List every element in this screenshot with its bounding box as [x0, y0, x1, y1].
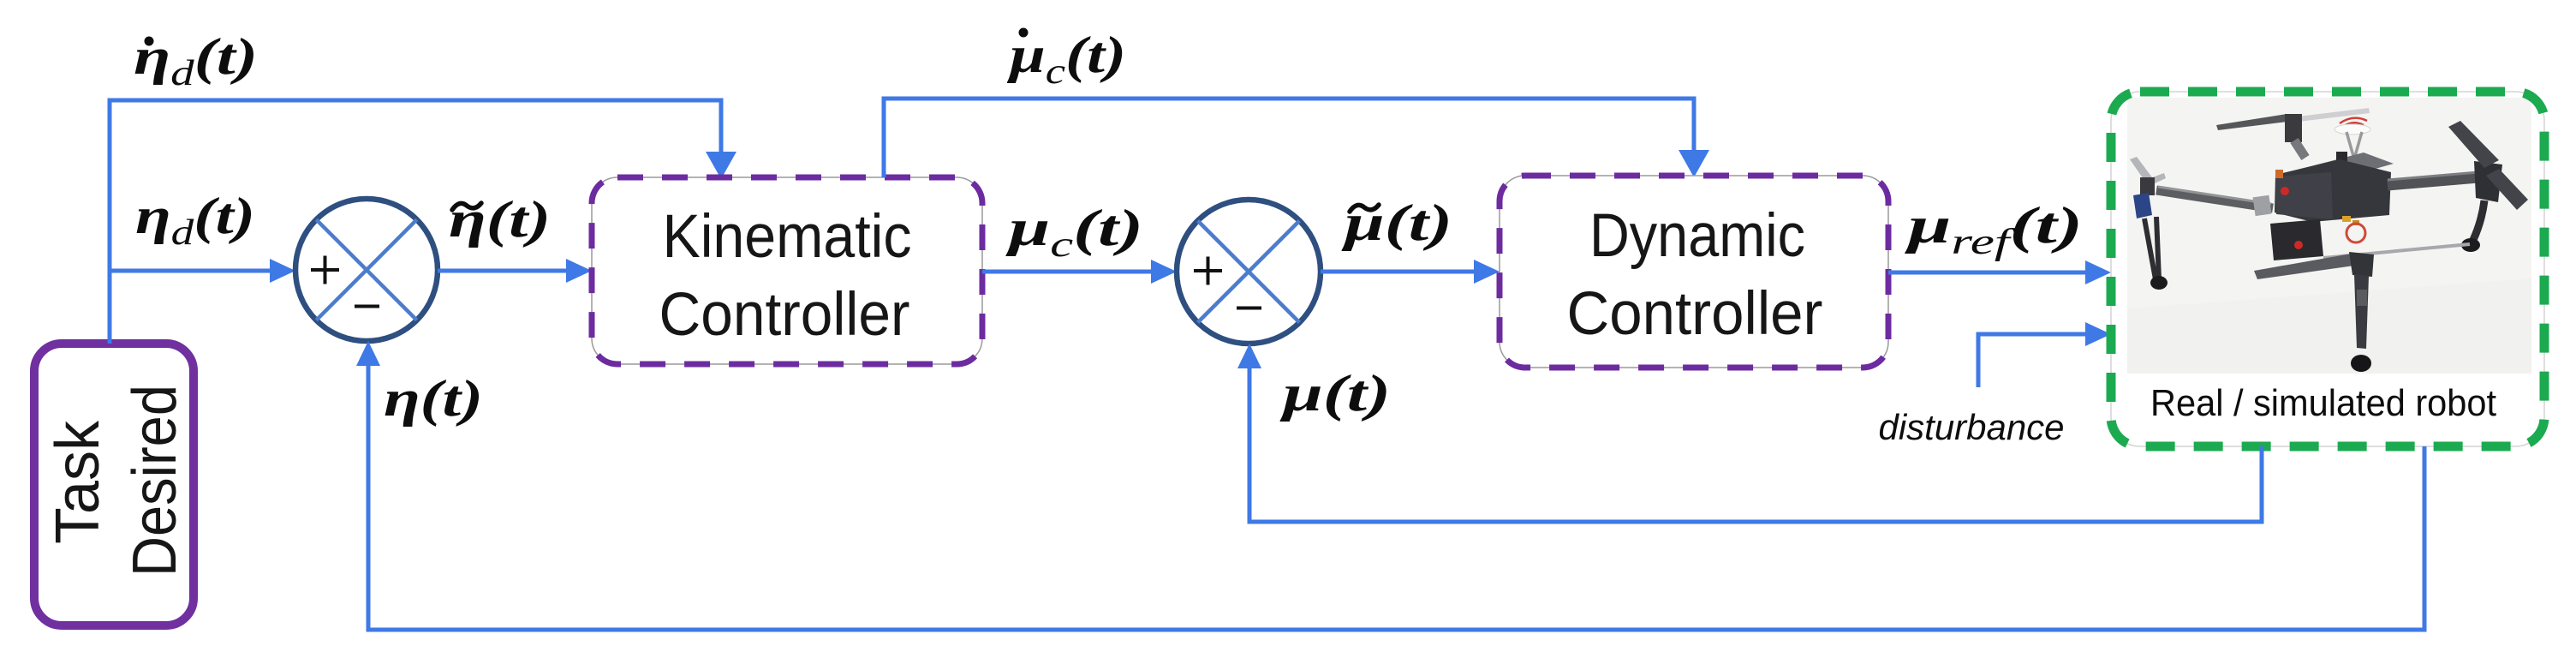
block Real / simulated robot green dashed frame: [2111, 92, 2544, 446]
drone red cable loop: [2346, 224, 2365, 242]
arrowhead into J2 left: [1151, 260, 1177, 284]
drone gps struts: [2346, 132, 2362, 156]
drone top-right arm tube: [2388, 177, 2478, 185]
drone top-left propeller dark blade: [2216, 114, 2287, 130]
svg-text:Kinematic: Kinematic: [663, 203, 912, 271]
drone body red dot: [2281, 187, 2289, 195]
drone left propeller blade 2: [2148, 173, 2166, 185]
wire Dynamic Controller to robot: [1888, 271, 2089, 275]
wire eta_dot_d feedforward (from Task Desired up, right, down into Kinematic top): [110, 100, 721, 344]
wire disturbance into robot block: [1978, 334, 2089, 387]
drone top-left arm strut: [2294, 141, 2305, 158]
svg-text:Real / simulated robot: Real / simulated robot: [2150, 382, 2496, 424]
wire Kinematic Controller to junction J2: [982, 270, 1154, 274]
label eta_tilde(t): [449, 191, 551, 248]
drone left propeller blade 1: [2130, 157, 2152, 182]
block Task Desired: [34, 344, 194, 625]
arrowhead into robot block left (disturbance): [2085, 322, 2111, 346]
svg-text:disturbance: disturbance: [1879, 407, 2065, 447]
drone top-right propeller blade up: [2448, 121, 2499, 168]
drone left blue mount: [2133, 193, 2152, 218]
summing junction J1: [295, 199, 438, 341]
drone top-left motor: [2285, 114, 2302, 142]
arrowhead into robot block left (mu_ref): [2085, 260, 2111, 284]
svg-text:μref(t): μref(t): [1904, 197, 2083, 262]
label mu_dot_c(t): [1006, 27, 1126, 92]
arrowhead into Dynamic Controller left: [1474, 260, 1500, 284]
block Dynamic Controller: [1500, 176, 1888, 368]
drone right leg: [2473, 200, 2484, 240]
svg-text:Dynamic: Dynamic: [1589, 202, 1805, 270]
svg-text:μ(t): μ(t): [1279, 365, 1391, 422]
svg-text:Desired: Desired: [121, 385, 189, 577]
drone left foot: [2150, 276, 2168, 290]
drone gps red swirl: [2340, 118, 2367, 126]
arrowhead into Kinematic Controller top: [706, 152, 736, 179]
drone center leg: [2354, 274, 2369, 349]
robot photo shading: [2127, 278, 2531, 374]
drone center leg bracket: [2357, 290, 2367, 306]
drone top-right arm highlight: [2388, 172, 2478, 180]
block Kinematic Controller: [592, 177, 982, 364]
drone left motor: [2140, 177, 2155, 195]
label mu_tilde(t): [1341, 194, 1452, 251]
drone graphic: [2130, 108, 2528, 372]
drone left arm highlight: [2158, 187, 2271, 204]
drone left arm tube: [2156, 190, 2273, 208]
drone top-right motor mount: [2474, 161, 2502, 202]
svg-text:Controller: Controller: [1567, 280, 1823, 348]
wire J1 to Kinematic Controller: [438, 269, 569, 273]
svg-text:ηd(t): ηd(t): [135, 188, 255, 253]
label eta_dot_d(t): [134, 28, 258, 93]
svg-text:η(t): η(t): [384, 370, 483, 427]
wire mu_dot_c (Kinematic top, up, right, down into Dynamic top): [884, 99, 1694, 177]
drone right foot: [2461, 238, 2480, 252]
svg-text:Task: Task: [44, 420, 112, 544]
arrowhead into J2 bottom: [1237, 344, 1261, 368]
robot photo background: [2127, 98, 2531, 374]
arrowhead into J1 left: [270, 259, 295, 283]
drone battery red dot: [2294, 241, 2303, 249]
wire eta feedback (robot bottom, down, left, up into J1 bottom): [368, 365, 2424, 630]
arrowhead into J1 bottom: [356, 341, 380, 366]
drone top-left propeller light blade: [2298, 108, 2370, 122]
wire eta_d to junction J1: [110, 269, 273, 273]
drone center foot: [2351, 355, 2371, 372]
block Real / simulated robot (thin underlay frame): [2111, 92, 2544, 446]
drone body knob: [2336, 152, 2347, 161]
drone body main mass: [2275, 159, 2391, 222]
drone body front face: [2275, 172, 2333, 219]
svg-text:μc(t): μc(t): [1005, 200, 1143, 265]
arrowhead into Dynamic Controller top: [1679, 150, 1709, 177]
drone bottom motor hub: [2349, 252, 2374, 277]
wire J2 to Dynamic Controller: [1321, 270, 1477, 274]
svg-text:Controller: Controller: [659, 281, 910, 349]
drone left leg struts: [2144, 217, 2159, 279]
drone yellow wires: [2342, 216, 2351, 222]
drone body orange marker: [2275, 170, 2283, 178]
drone top-right propeller blade down: [2486, 169, 2528, 210]
drone gps disc: [2334, 124, 2370, 135]
arrowhead into Kinematic Controller left: [566, 259, 592, 283]
drone bottom propeller blade: [2254, 254, 2354, 279]
drone left arm clamp: [2253, 195, 2272, 216]
drone cross rod to right foot: [2323, 244, 2470, 258]
summing junction J2: [1177, 200, 1321, 344]
svg-text:η(t): η(t): [449, 191, 551, 248]
drone body top plate: [2298, 153, 2394, 183]
drone battery box: [2270, 219, 2323, 260]
wire mu feedback (robot bottom, down, left, up into J2 bottom): [1249, 368, 2262, 522]
